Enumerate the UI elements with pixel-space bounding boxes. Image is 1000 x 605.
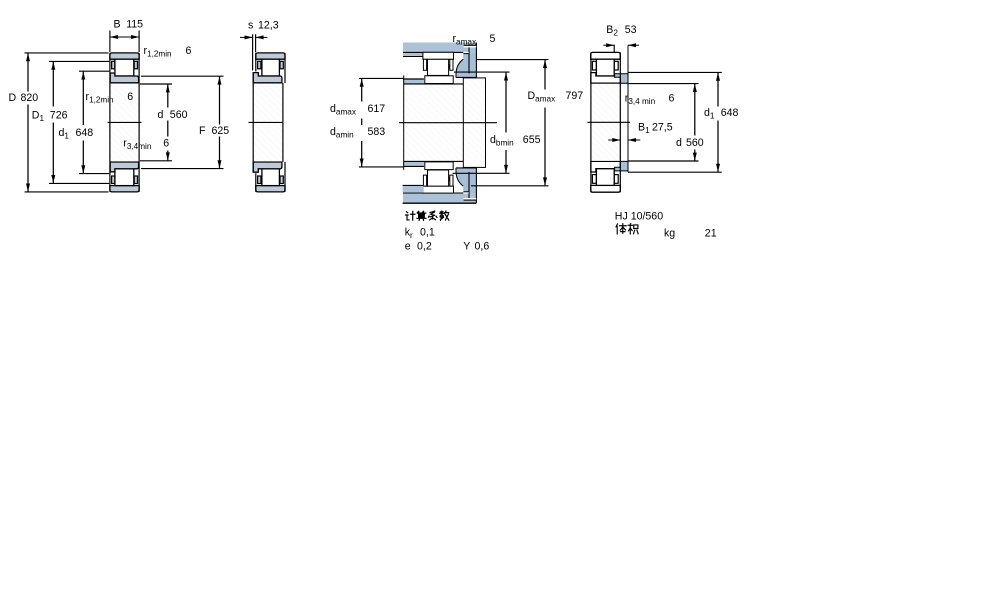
svg-text:d1648: d1648 — [59, 127, 94, 141]
svg-text:e0,2: e0,2 — [405, 241, 432, 253]
svg-text:B127,5: B127,5 — [638, 122, 673, 136]
svg-text:d560: d560 — [676, 137, 704, 149]
svg-text:21: 21 — [705, 228, 717, 240]
svg-text:kr0,1: kr0,1 — [405, 227, 435, 241]
svg-text:Y0,6: Y0,6 — [463, 241, 489, 253]
svg-text:HJ 10/560: HJ 10/560 — [615, 210, 663, 222]
svg-text:B115: B115 — [114, 19, 144, 31]
svg-text:D820: D820 — [9, 92, 39, 104]
svg-text:kg: kg — [664, 228, 675, 240]
svg-text:d1648: d1648 — [704, 107, 738, 121]
svg-text:F625: F625 — [199, 125, 229, 137]
svg-text:d560: d560 — [158, 109, 188, 121]
svg-text:D1726: D1726 — [32, 109, 68, 123]
svg-text:s12,3: s12,3 — [248, 19, 279, 31]
